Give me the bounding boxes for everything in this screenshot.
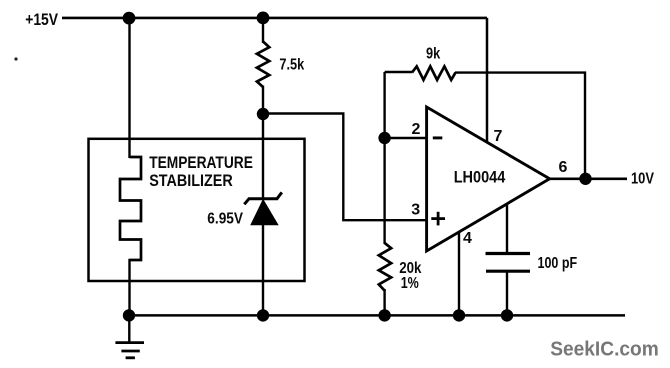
wire 9k left lead bbox=[385, 71, 412, 73]
svg-text:7.5k: 7.5k bbox=[279, 56, 304, 73]
capacitor C1 100pF top plate bbox=[486, 252, 531, 255]
svg-text:10V: 10V bbox=[631, 171, 655, 188]
wire pin 4 to ground bbox=[458, 232, 460, 315]
svg-text:6: 6 bbox=[559, 159, 568, 176]
node junction dot rail/7.5k bbox=[257, 12, 270, 25]
wire ground rail bbox=[129, 314, 625, 317]
wire heater top lead bbox=[128, 18, 130, 158]
svg-text:4: 4 bbox=[463, 230, 472, 247]
resistor R 20k 1% bbox=[379, 243, 391, 291]
ground symbol stem bbox=[128, 315, 130, 342]
wire zener top lead bbox=[262, 114, 264, 198]
svg-text:2: 2 bbox=[412, 121, 421, 138]
svg-text:+15V: +15V bbox=[25, 11, 58, 29]
zener diode D1 6.95V cathode bar bbox=[244, 192, 281, 204]
wire 9k right lead to output bbox=[455, 73, 585, 179]
wire pin7 vertical from rail bbox=[486, 18, 489, 143]
box temperature stabilizer outline bbox=[89, 139, 305, 281]
resistor R 7.5k bbox=[257, 42, 269, 88]
stray speck bbox=[14, 57, 17, 60]
node ground dot heater bbox=[123, 309, 135, 321]
node output junction dot bbox=[579, 173, 591, 185]
node ground dot pin4 bbox=[453, 309, 465, 321]
node junction dot 7.5k/zener bbox=[257, 108, 269, 120]
svg-text:STABILIZER: STABILIZER bbox=[149, 172, 233, 190]
heater element (temperature stabilizer meander) bbox=[120, 157, 141, 260]
wire heater bottom lead bbox=[128, 259, 130, 316]
svg-text:TEMPERATURE: TEMPERATURE bbox=[149, 154, 253, 172]
svg-text:6.95V: 6.95V bbox=[207, 211, 243, 228]
capacitor C1 100pF bottom plate bbox=[486, 270, 530, 273]
wire zener bottom lead bbox=[262, 224, 264, 315]
svg-text:3: 3 bbox=[411, 202, 420, 219]
wire top +15V rail bbox=[62, 17, 487, 20]
wire 7.5k top lead bbox=[262, 18, 264, 43]
op-amp U1 LH0044 triangle bbox=[427, 107, 550, 251]
wire output pin 6 bbox=[550, 177, 628, 180]
zener diode D1 anode triangle bbox=[251, 200, 278, 225]
ground symbol bar 3 bbox=[126, 356, 135, 359]
svg-text:9k: 9k bbox=[426, 46, 440, 63]
wire cap top lead from op-amp edge bbox=[506, 204, 508, 254]
op-amp minus sign bbox=[433, 136, 443, 139]
svg-text:100 pF: 100 pF bbox=[538, 255, 578, 272]
svg-text:LH0044: LH0044 bbox=[454, 168, 506, 187]
svg-text:1%: 1% bbox=[401, 275, 419, 292]
resistor R 9k bbox=[412, 66, 456, 80]
node ground dot cap bbox=[501, 309, 513, 321]
svg-text:7: 7 bbox=[494, 128, 503, 145]
wire pin2 horizontal bbox=[385, 137, 427, 139]
wire cap bottom lead bbox=[506, 271, 508, 315]
wire pin2 node vertical (feedback to 20k) bbox=[383, 72, 385, 244]
ground symbol bar 2 bbox=[121, 350, 139, 353]
op-amp plus sign bbox=[431, 217, 445, 220]
wire 7.5k bottom lead bbox=[262, 86, 264, 115]
wire zener node to pin 3 bbox=[263, 114, 427, 221]
node ground dot zener bbox=[257, 309, 269, 321]
node junction dot rail/heater bbox=[123, 12, 136, 25]
wire 20k bottom lead bbox=[383, 289, 385, 315]
svg-text:SeekIC.com: SeekIC.com bbox=[550, 337, 659, 360]
ground symbol bar 1 bbox=[115, 341, 144, 344]
node ground dot 20k bbox=[378, 309, 390, 321]
node junction dot pin2 bbox=[378, 132, 390, 144]
